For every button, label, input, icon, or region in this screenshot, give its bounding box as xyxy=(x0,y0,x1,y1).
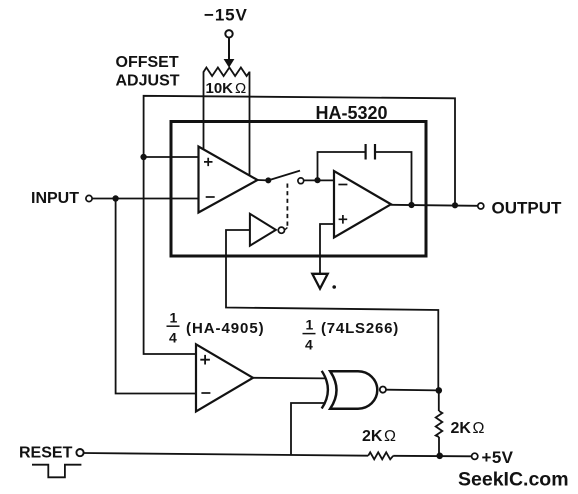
RESET terminal xyxy=(76,449,83,456)
svg-text:−15V: −15V xyxy=(204,6,248,25)
fraction bar 1 xyxy=(167,325,180,327)
inverter bubble xyxy=(278,227,284,233)
label 1/4 (74LS266) xyxy=(305,317,399,353)
svg-text:(74LS266): (74LS266) xyxy=(321,320,399,337)
capacitor C1 xyxy=(366,144,375,160)
resistor R2 2K vertical xyxy=(438,390,440,455)
dashed control line xyxy=(286,184,288,228)
resistor R3 2K horizontal xyxy=(368,452,393,459)
svg-text:ADJUST: ADJUST xyxy=(116,73,180,90)
input junction dot xyxy=(112,195,118,201)
XNOR output bubble xyxy=(380,387,386,393)
switch driver inverter xyxy=(250,214,276,246)
switch arm xyxy=(268,171,300,181)
svg-text:OUTPUT: OUTPUT xyxy=(492,199,563,218)
OUTPUT terminal xyxy=(478,203,484,209)
output node dot 1 xyxy=(408,202,414,208)
output node dot 2 xyxy=(452,202,458,208)
svg-text:4: 4 xyxy=(305,337,313,353)
feedback wire to capacitor xyxy=(318,152,412,205)
wire resistor to +5V xyxy=(393,455,471,458)
pot left leg xyxy=(203,72,205,150)
op-amp U2 xyxy=(334,171,391,238)
offset feedback wire (node A up over to output) xyxy=(144,96,455,205)
comparator U3 xyxy=(196,344,253,411)
svg-text:2KΩ: 2KΩ xyxy=(451,420,485,437)
svg-text:OFFSET: OFFSET xyxy=(116,54,179,71)
svg-text:+5V: +5V xyxy=(482,448,514,467)
svg-text:10KΩ: 10KΩ xyxy=(206,80,247,97)
svg-text:4: 4 xyxy=(169,330,177,346)
wire contact to U2 - input xyxy=(304,179,334,181)
U1 output wire xyxy=(258,179,269,181)
-15V terminal xyxy=(225,30,232,37)
switch fixed contact xyxy=(298,178,304,184)
svg-text:1: 1 xyxy=(306,317,314,333)
potentiometer R 10K zigzag xyxy=(204,68,250,77)
pot right leg xyxy=(249,72,251,177)
HA-5320 box xyxy=(171,122,426,257)
RESET wire xyxy=(83,453,368,456)
period mark xyxy=(332,285,336,289)
fraction bar 2 xyxy=(303,333,316,335)
XNOR output wire xyxy=(386,389,439,392)
XNOR bottom input wire xyxy=(291,403,325,455)
svg-text:1: 1 xyxy=(170,310,178,326)
wire node A to op-amp U1 + input xyxy=(144,156,199,158)
XNOR output junction dot xyxy=(436,387,443,394)
ground xyxy=(312,274,327,289)
INPUT terminal xyxy=(86,195,92,201)
U1 output node dot xyxy=(265,177,271,183)
svg-text:RESET: RESET xyxy=(19,444,73,461)
+5V junction dot xyxy=(436,453,443,460)
op-amp U1 xyxy=(199,147,258,213)
wire input node down to comparator - input xyxy=(116,199,196,394)
svg-text:INPUT: INPUT xyxy=(31,190,79,207)
svg-text:(HA-4905): (HA-4905) xyxy=(186,320,265,337)
U2 output wire xyxy=(391,205,478,206)
comparator output wire xyxy=(253,377,326,380)
+5V terminal xyxy=(472,453,478,459)
summing node dot xyxy=(314,177,320,183)
svg-text:2KΩ: 2KΩ xyxy=(362,428,396,445)
node A dot xyxy=(140,154,146,160)
U2 + input wire down to ground xyxy=(320,224,334,273)
INPUT wire to U1 - input xyxy=(92,198,198,200)
driver input wire from XNOR output xyxy=(226,230,438,391)
svg-text:SeekIC.com: SeekIC.com xyxy=(458,469,569,491)
reset pulse waveform xyxy=(32,465,81,478)
label 1/4 (HA-4905) xyxy=(169,310,265,346)
XNOR gate U4 input arc xyxy=(322,371,328,409)
wire node A down to comparator + input xyxy=(144,157,196,354)
wiper arrow xyxy=(228,38,230,60)
XNOR gate U4 body xyxy=(330,371,377,408)
